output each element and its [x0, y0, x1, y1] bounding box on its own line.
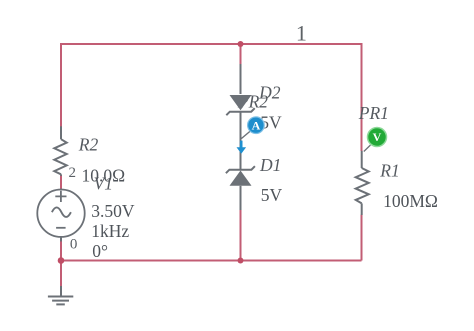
svg-text:V: V — [373, 130, 382, 144]
junction ground-left — [58, 257, 65, 264]
resistor R1 — [356, 151, 369, 215]
svg-text:0°: 0° — [92, 241, 108, 261]
wire R2 to V1 (red overlay) — [60, 176, 62, 189]
junction node 1 — [238, 41, 244, 47]
svg-text:1kHz: 1kHz — [91, 221, 129, 241]
ground — [48, 286, 73, 304]
wire net top: node 1 horizontal — [61, 43, 362, 45]
wire right vertical (top) — [361, 43, 363, 151]
svg-text:0: 0 — [70, 237, 78, 253]
svg-text:1: 1 — [296, 20, 307, 45]
junction ground-middle — [238, 258, 244, 264]
svg-text:D2: D2 — [258, 82, 281, 102]
svg-text:D1: D1 — [259, 155, 281, 175]
wire left vertical (top) — [60, 43, 62, 127]
probe PR2 current arrow — [240, 141, 243, 148]
svg-text:R1: R1 — [379, 161, 399, 181]
source V1 — [37, 190, 84, 242]
wire between D2 and D1 — [240, 111, 242, 170]
diode D2 (zener, pointing down) — [226, 95, 254, 115]
svg-text:2: 2 — [69, 165, 77, 181]
probe PR1 voltmeter circle — [368, 128, 387, 147]
svg-text:3.50V: 3.50V — [91, 201, 135, 221]
svg-text:R2: R2 — [78, 134, 99, 154]
wire bottom horizontal — [61, 260, 362, 262]
wire V1 bottom to ground node — [60, 241, 62, 286]
probe PR1 leader line — [364, 145, 371, 152]
diode D1 bottom lead — [240, 186, 242, 210]
svg-text:A: A — [252, 118, 261, 132]
svg-text:5V: 5V — [261, 185, 283, 205]
svg-text:V1: V1 — [94, 174, 113, 194]
wire middle vertical (top stub) — [240, 44, 242, 65]
resistor R2 — [54, 126, 66, 190]
wire right vertical (bottom) — [361, 215, 363, 261]
probe PR2 ammeter circle — [248, 117, 265, 134]
svg-text:100MΩ: 100MΩ — [383, 191, 438, 211]
probe PR2 leader line — [241, 131, 251, 139]
diode D2 top lead — [240, 64, 242, 94]
wire middle vertical (bottom) — [240, 210, 242, 261]
diode D1 (zener, pointing up) — [226, 166, 255, 186]
svg-text:PR1: PR1 — [358, 103, 389, 123]
